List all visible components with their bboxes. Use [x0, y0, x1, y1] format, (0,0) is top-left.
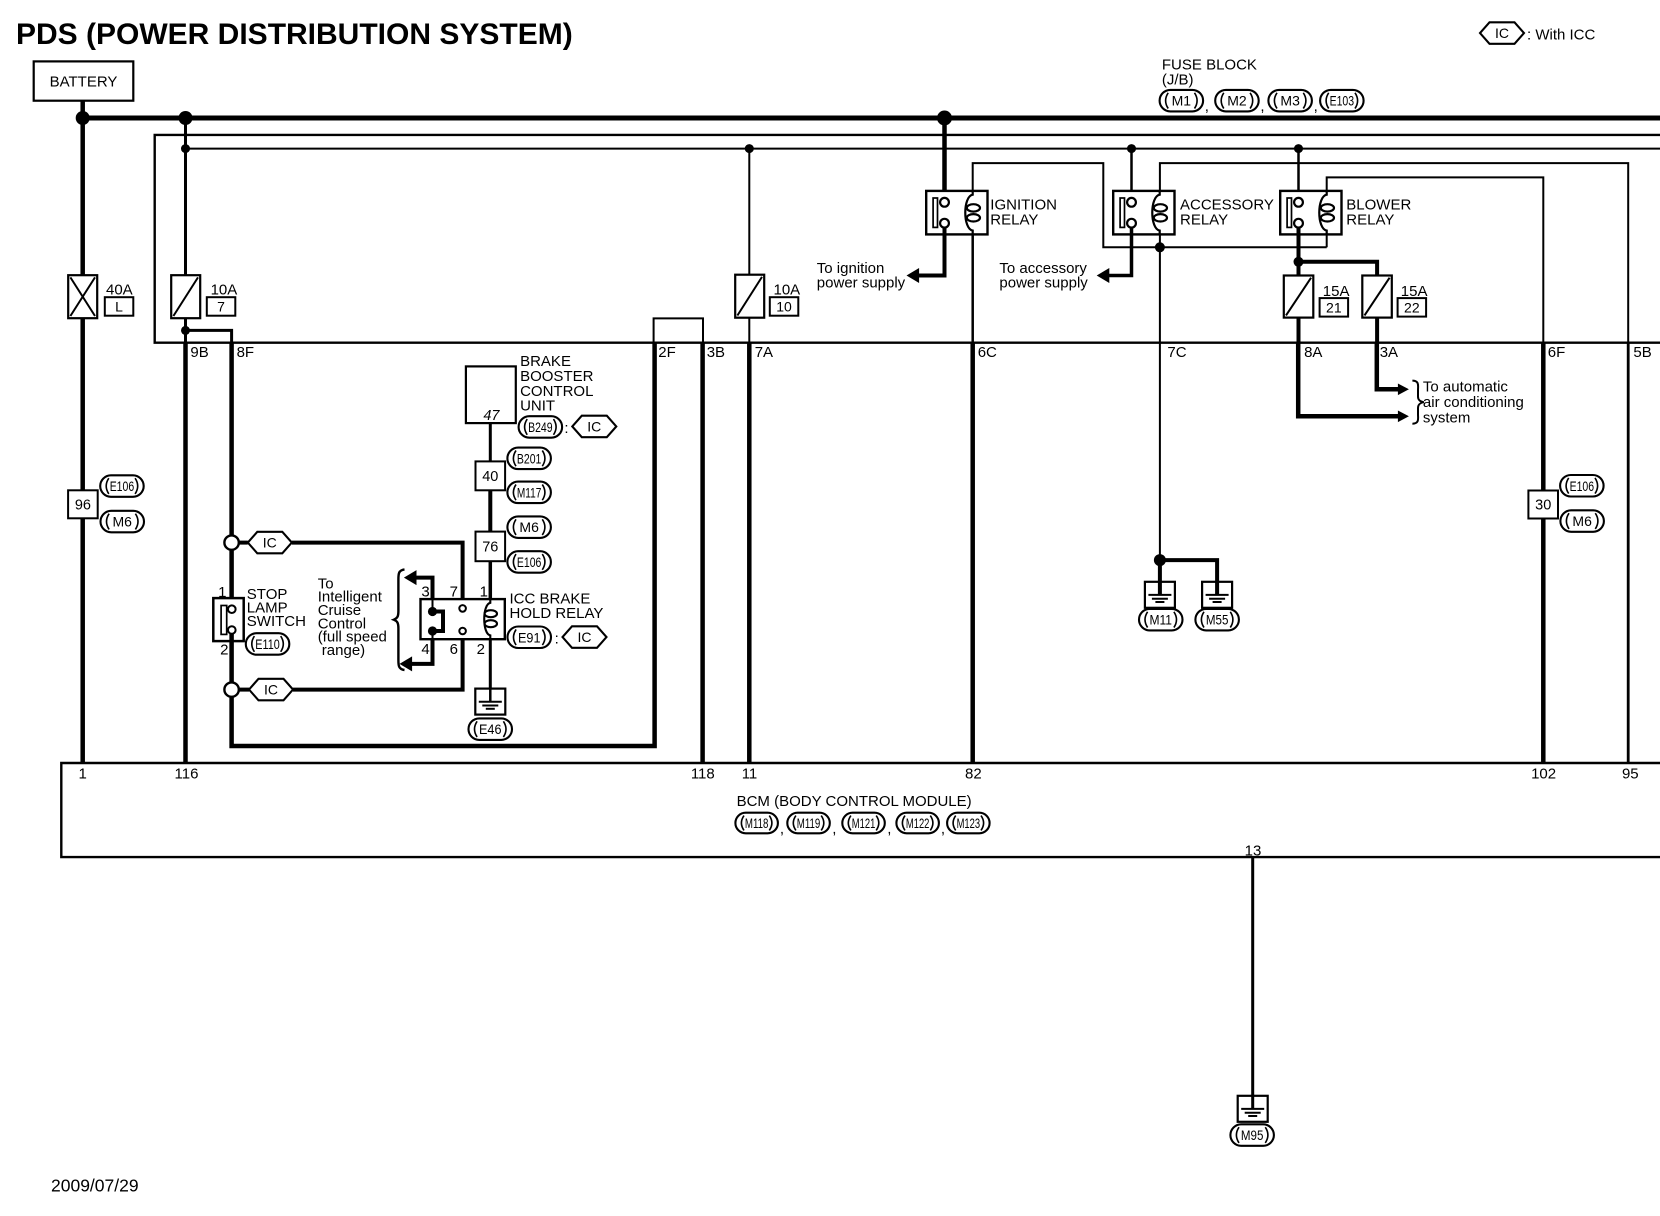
arrow ICC pin 4 — [400, 656, 413, 671]
IC tap circle lower — [224, 682, 238, 696]
connector E106 (right) — [1560, 475, 1604, 497]
junction ignition node — [937, 111, 952, 126]
wire ignition coil top to 7C net — [973, 163, 1327, 247]
wire 3A fuse to bus — [1375, 318, 1379, 343]
arrow ICC pin 3 — [404, 570, 417, 585]
svg-text:E91: E91 — [518, 629, 541, 645]
battery — [34, 61, 134, 100]
svg-text:M6: M6 — [113, 514, 133, 530]
IC hexagon E91 — [563, 626, 607, 648]
connector B201 — [507, 448, 551, 470]
svg-text:IC: IC — [1495, 25, 1509, 41]
wire ignition contact out — [919, 228, 945, 276]
svg-text:2009/07/29: 2009/07/29 — [51, 1176, 139, 1196]
wire to M11 ground — [1158, 560, 1162, 582]
svg-text:M6: M6 — [519, 519, 539, 535]
ground M11 — [1145, 581, 1175, 608]
IC tap circle upper — [224, 535, 238, 549]
arrow to accessory power supply — [1097, 268, 1110, 283]
junction inner bus accessory — [1127, 144, 1136, 153]
wire 7C below bus — [1159, 343, 1161, 560]
connector M95 — [1230, 1124, 1274, 1146]
svg-text:E103: E103 — [1330, 93, 1355, 109]
svg-text:RELAY: RELAY — [1346, 212, 1394, 229]
wire blower coil bottom — [1326, 234, 1328, 248]
svg-text:E106: E106 — [110, 478, 135, 494]
wire battery drop — [80, 101, 85, 118]
wire 8F branch — [186, 330, 232, 342]
junction inner bus 7A — [745, 144, 754, 153]
svg-text:BATTERY: BATTERY — [50, 74, 118, 91]
connector M6 (left) — [101, 511, 145, 533]
wire 3A to AC system — [1377, 343, 1399, 390]
wire accessory coil bottom — [1159, 234, 1161, 247]
svg-text:E110: E110 — [255, 636, 280, 652]
connector B249 — [519, 416, 563, 438]
connector M3 — [1268, 90, 1312, 112]
svg-text:,: , — [941, 821, 945, 838]
svg-text:E106: E106 — [1570, 478, 1595, 494]
svg-text:IC: IC — [578, 629, 592, 645]
brace AC system — [1412, 381, 1423, 424]
svg-text::: : — [555, 631, 559, 648]
svg-text:: With ICC: : With ICC — [1527, 27, 1596, 44]
wire 8F to switch pin 1 — [229, 550, 234, 606]
fuse block (J/B) outline — [155, 135, 1660, 343]
svg-text:22: 22 — [1404, 300, 1420, 316]
svg-text:10A: 10A — [211, 282, 238, 299]
wire 8F down to IC tap — [229, 343, 234, 536]
wire 8A fuse to bus — [1297, 318, 1301, 343]
svg-text:11: 11 — [742, 766, 758, 783]
svg-text:47: 47 — [483, 408, 500, 424]
svg-text:,: , — [1260, 98, 1264, 115]
connector M122 — [896, 813, 939, 834]
wire switch loop bottom — [232, 343, 655, 746]
arrow 8A to AC system — [1398, 411, 1409, 423]
svg-text:5B: 5B — [1633, 344, 1651, 361]
connector M55 — [1195, 609, 1239, 631]
svg-text:116: 116 — [175, 766, 199, 783]
wire ICC pin 3 — [416, 578, 432, 600]
connector M2 — [1215, 90, 1259, 112]
svg-text:IC: IC — [587, 418, 601, 434]
connector E91 — [508, 627, 552, 649]
wire 6F to BCM pin 102 lower — [1541, 519, 1546, 764]
wire 7A fuse to bus — [748, 318, 750, 343]
svg-text:M122: M122 — [906, 815, 930, 831]
fuse box 7 — [207, 297, 236, 316]
fuse box 22 — [1398, 298, 1427, 317]
svg-text:,: , — [780, 821, 784, 838]
svg-text:6: 6 — [450, 641, 458, 658]
svg-text:M119: M119 — [797, 815, 821, 831]
svg-text:M123: M123 — [957, 815, 981, 831]
svg-text:RELAY: RELAY — [1180, 212, 1228, 229]
wire accessory contact feed — [1130, 149, 1133, 198]
svg-text:M118: M118 — [745, 815, 769, 831]
svg-text:13: 13 — [1245, 842, 1262, 859]
svg-text:range): range) — [322, 642, 365, 659]
svg-text:21: 21 — [1326, 300, 1342, 316]
wire inner bus — [186, 148, 1660, 150]
svg-text:UNIT: UNIT — [520, 398, 555, 415]
svg-text:2: 2 — [477, 641, 485, 658]
wire ICC pin 4 — [432, 635, 434, 639]
svg-text:E106: E106 — [517, 554, 542, 570]
IC hexagon B249 — [572, 416, 616, 438]
svg-text:2F: 2F — [658, 344, 676, 361]
svg-text:M11: M11 — [1150, 612, 1173, 628]
arrow 3A to AC system — [1398, 384, 1409, 396]
wire 40A to BCM pin 1 lower — [80, 518, 85, 763]
stop lamp switch — [213, 598, 243, 641]
svg-text:,: , — [832, 821, 836, 838]
connector M121 — [842, 813, 885, 834]
svg-text:40: 40 — [482, 469, 498, 485]
connector 96 — [68, 490, 98, 518]
ground E46 — [475, 688, 505, 715]
svg-text:,: , — [887, 821, 891, 838]
fuse box 10 — [770, 297, 799, 316]
wire switch pin 2 down — [229, 634, 234, 683]
svg-text:M121: M121 — [852, 815, 876, 831]
connector E103 — [1320, 90, 1364, 112]
svg-text:7C: 7C — [1167, 344, 1186, 361]
fuse 15A 22 — [1362, 276, 1392, 318]
wire pin 47 to connector 40 — [489, 423, 492, 461]
wire connector 76 to ICC relay pin 1 — [489, 561, 493, 599]
wire circle to hexagon lower — [239, 688, 249, 692]
connector 30 — [1528, 491, 1558, 519]
svg-text:10A: 10A — [774, 282, 801, 299]
svg-text:3A: 3A — [1380, 344, 1398, 361]
arrow to ignition power supply — [907, 268, 920, 283]
wire 7A feed — [748, 149, 750, 275]
wire ICC pin 2 to ground — [489, 639, 492, 689]
junction battery node — [76, 111, 90, 125]
svg-text:IC: IC — [263, 535, 277, 551]
svg-text:6F: 6F — [1548, 344, 1566, 361]
wire 40A to BCM pin 1 — [80, 318, 85, 490]
svg-text:M6: M6 — [1572, 513, 1592, 529]
junction ground node — [1154, 554, 1166, 566]
svg-text:HOLD RELAY: HOLD RELAY — [510, 605, 604, 622]
IC hexagon lower — [249, 679, 293, 701]
svg-text:1: 1 — [79, 766, 87, 783]
connector 76 — [476, 532, 506, 562]
wire top power bus — [83, 116, 1660, 121]
connector M1 — [1160, 90, 1204, 112]
connector E106 (left) — [100, 475, 144, 497]
connector E46 — [469, 718, 513, 740]
wire blower branch to fuse 22 — [1299, 262, 1378, 276]
svg-text:3B: 3B — [707, 344, 725, 361]
fuse 10A 7 — [171, 275, 200, 318]
wire IC lower to relay pin 6 — [293, 639, 463, 689]
svg-text:PDS (POWER DISTRIBUTION SYSTEM: PDS (POWER DISTRIBUTION SYSTEM) — [16, 18, 573, 51]
fuse box L — [105, 297, 134, 316]
svg-text:96: 96 — [75, 498, 91, 514]
svg-text:M3: M3 — [1280, 93, 1300, 109]
svg-text:B201: B201 — [517, 450, 542, 466]
svg-text:L: L — [115, 299, 123, 315]
svg-text:,: , — [1314, 98, 1318, 115]
svg-text:118: 118 — [691, 766, 715, 783]
wire connector 40 to 76 — [488, 490, 492, 531]
wire accessory contact out — [1109, 228, 1132, 276]
svg-text:7A: 7A — [755, 344, 773, 361]
svg-text:82: 82 — [965, 766, 982, 783]
junction inner bus 9B — [181, 144, 190, 153]
ground M55 — [1202, 581, 1232, 608]
wire circle to hexagon upper — [239, 541, 248, 545]
connector E110 — [246, 633, 289, 655]
svg-text:B249: B249 — [528, 419, 553, 435]
wire 9B to BCM pin 116 — [183, 343, 188, 763]
wire blower contact out — [1297, 228, 1301, 276]
svg-text:RELAY: RELAY — [990, 212, 1038, 229]
wire IC upper to relay pin 7 — [292, 543, 463, 600]
wire 9B fuse to bus — [184, 318, 187, 343]
svg-text:M2: M2 — [1227, 93, 1247, 109]
svg-text:M55: M55 — [1206, 612, 1229, 628]
svg-text:system: system — [1423, 409, 1471, 426]
svg-text:M117: M117 — [517, 484, 542, 500]
wire to M55 ground — [1160, 560, 1217, 582]
fuse 10A 10 — [735, 275, 764, 318]
fuse box 21 — [1320, 298, 1349, 317]
svg-text:7: 7 — [217, 299, 225, 315]
svg-text:9B: 9B — [190, 344, 208, 361]
svg-text:8F: 8F — [237, 344, 255, 361]
wire 9B feed — [184, 118, 187, 275]
svg-text:(J/B): (J/B) — [1162, 71, 1194, 88]
junction 7C coil node — [1155, 242, 1165, 252]
svg-text:4: 4 — [421, 641, 429, 658]
wire 3B to BCM pin 118 — [700, 343, 705, 763]
BCM (body control module) box — [61, 763, 1660, 857]
blower relay — [1280, 191, 1341, 235]
svg-text::: : — [564, 420, 568, 437]
junction blower fuse node — [1294, 257, 1304, 267]
svg-text:power supply: power supply — [817, 274, 906, 291]
svg-text:40A: 40A — [106, 282, 133, 299]
IC hexagon upper — [248, 532, 292, 554]
svg-text:M95: M95 — [1241, 1127, 1264, 1143]
connector M6 (right) — [1560, 510, 1604, 532]
junction inner bus blower — [1294, 144, 1303, 153]
svg-text:1: 1 — [218, 584, 226, 601]
connector E106 (center) — [507, 551, 551, 573]
connector 40 — [476, 461, 506, 490]
svg-text:,: , — [1205, 98, 1209, 115]
wire ignition contact feed — [942, 118, 947, 198]
brake booster control unit — [466, 366, 516, 423]
svg-text:102: 102 — [1531, 766, 1556, 783]
svg-text:8A: 8A — [1304, 344, 1322, 361]
wire 5B to BCM pin 95 — [1627, 343, 1630, 763]
wire 7A to BCM pin 11 — [747, 343, 752, 763]
connector M119 — [787, 813, 830, 834]
ground M95 — [1238, 1095, 1268, 1122]
svg-text:BCM (BODY CONTROL MODULE): BCM (BODY CONTROL MODULE) — [737, 793, 972, 810]
svg-text:power supply: power supply — [999, 274, 1088, 291]
wire 40A feed — [80, 118, 85, 275]
wire 6F to BCM pin 102 — [1541, 343, 1546, 491]
wire 7C down — [1159, 247, 1161, 342]
ignition relay — [926, 191, 987, 235]
accessory relay — [1113, 191, 1174, 235]
wire blower coil top to 6F — [1327, 177, 1544, 342]
svg-text:95: 95 — [1622, 766, 1639, 783]
svg-text:E46: E46 — [479, 721, 502, 737]
fuse 15A 21 — [1284, 276, 1314, 318]
svg-text:IC: IC — [264, 682, 278, 698]
junction 8F branch — [181, 326, 190, 335]
svg-text:air conditioning: air conditioning — [1423, 394, 1524, 411]
wire BCM pin 13 to M95 — [1251, 857, 1254, 1097]
connector M123 — [947, 813, 990, 834]
ICC brake hold relay — [421, 599, 505, 639]
wire ignition coil to 6C — [971, 234, 974, 342]
svg-text:2: 2 — [220, 642, 228, 659]
fusible link 40A — [68, 275, 97, 318]
svg-text:M1: M1 — [1172, 93, 1192, 109]
connector M6 (center) — [507, 516, 551, 538]
legend IC hexagon (With ICC) — [1480, 22, 1524, 44]
svg-text:30: 30 — [1535, 498, 1551, 514]
junction 9B node — [179, 111, 193, 125]
connector M11 — [1139, 609, 1183, 631]
svg-text:6C: 6C — [978, 344, 997, 361]
wire blower contact feed — [1297, 149, 1300, 198]
wire 8A to AC system — [1298, 343, 1398, 417]
connector M117 — [507, 482, 551, 504]
brace ICC — [394, 569, 405, 670]
fuse block notch (2F/3B) — [654, 318, 703, 342]
svg-text:76: 76 — [482, 540, 498, 556]
wire accessory coil top to 5B — [1160, 163, 1628, 343]
svg-text:SWITCH: SWITCH — [247, 613, 306, 630]
wire 6C to BCM pin 82 — [970, 343, 975, 763]
svg-text:10: 10 — [776, 299, 792, 315]
connector M118 — [735, 813, 778, 834]
